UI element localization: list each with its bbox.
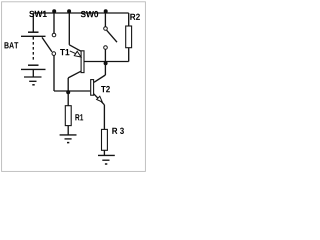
transistor T1	[68, 13, 84, 91]
label SW0	[81, 11, 99, 17]
junction: top rail / SW1	[52, 9, 56, 13]
battery BAT	[21, 13, 46, 77]
switch SW1	[42, 13, 56, 91]
junction: T1 emitter / R1 / base wire	[66, 90, 70, 94]
ground (battery negative)	[24, 77, 42, 85]
label R3	[112, 128, 124, 134]
resistor R2	[126, 13, 132, 62]
resistor R1	[65, 91, 71, 135]
label T2	[101, 86, 110, 92]
junction: top rail / SW0	[104, 9, 108, 13]
transistor T2	[91, 62, 106, 130]
label R1	[75, 114, 83, 120]
label R2	[130, 14, 140, 20]
junction: SW0 / T1 base / R2 / T2 collector	[104, 61, 108, 65]
wire: T1 base to R2 (node with SW0)	[84, 61, 128, 63]
wire: emitter T1 / R1 / SW1 to T2 base	[54, 90, 90, 92]
switch SW0	[104, 13, 117, 62]
label SW1	[29, 11, 47, 17]
wire: top supply rail	[33, 12, 128, 14]
ground (R1)	[60, 135, 77, 143]
label T1 with pointer arrow	[60, 49, 81, 57]
resistor R3	[102, 129, 108, 155]
junction: top rail / T1 collector	[67, 9, 71, 13]
label BAT	[5, 42, 19, 48]
ground (R3)	[98, 155, 115, 164]
